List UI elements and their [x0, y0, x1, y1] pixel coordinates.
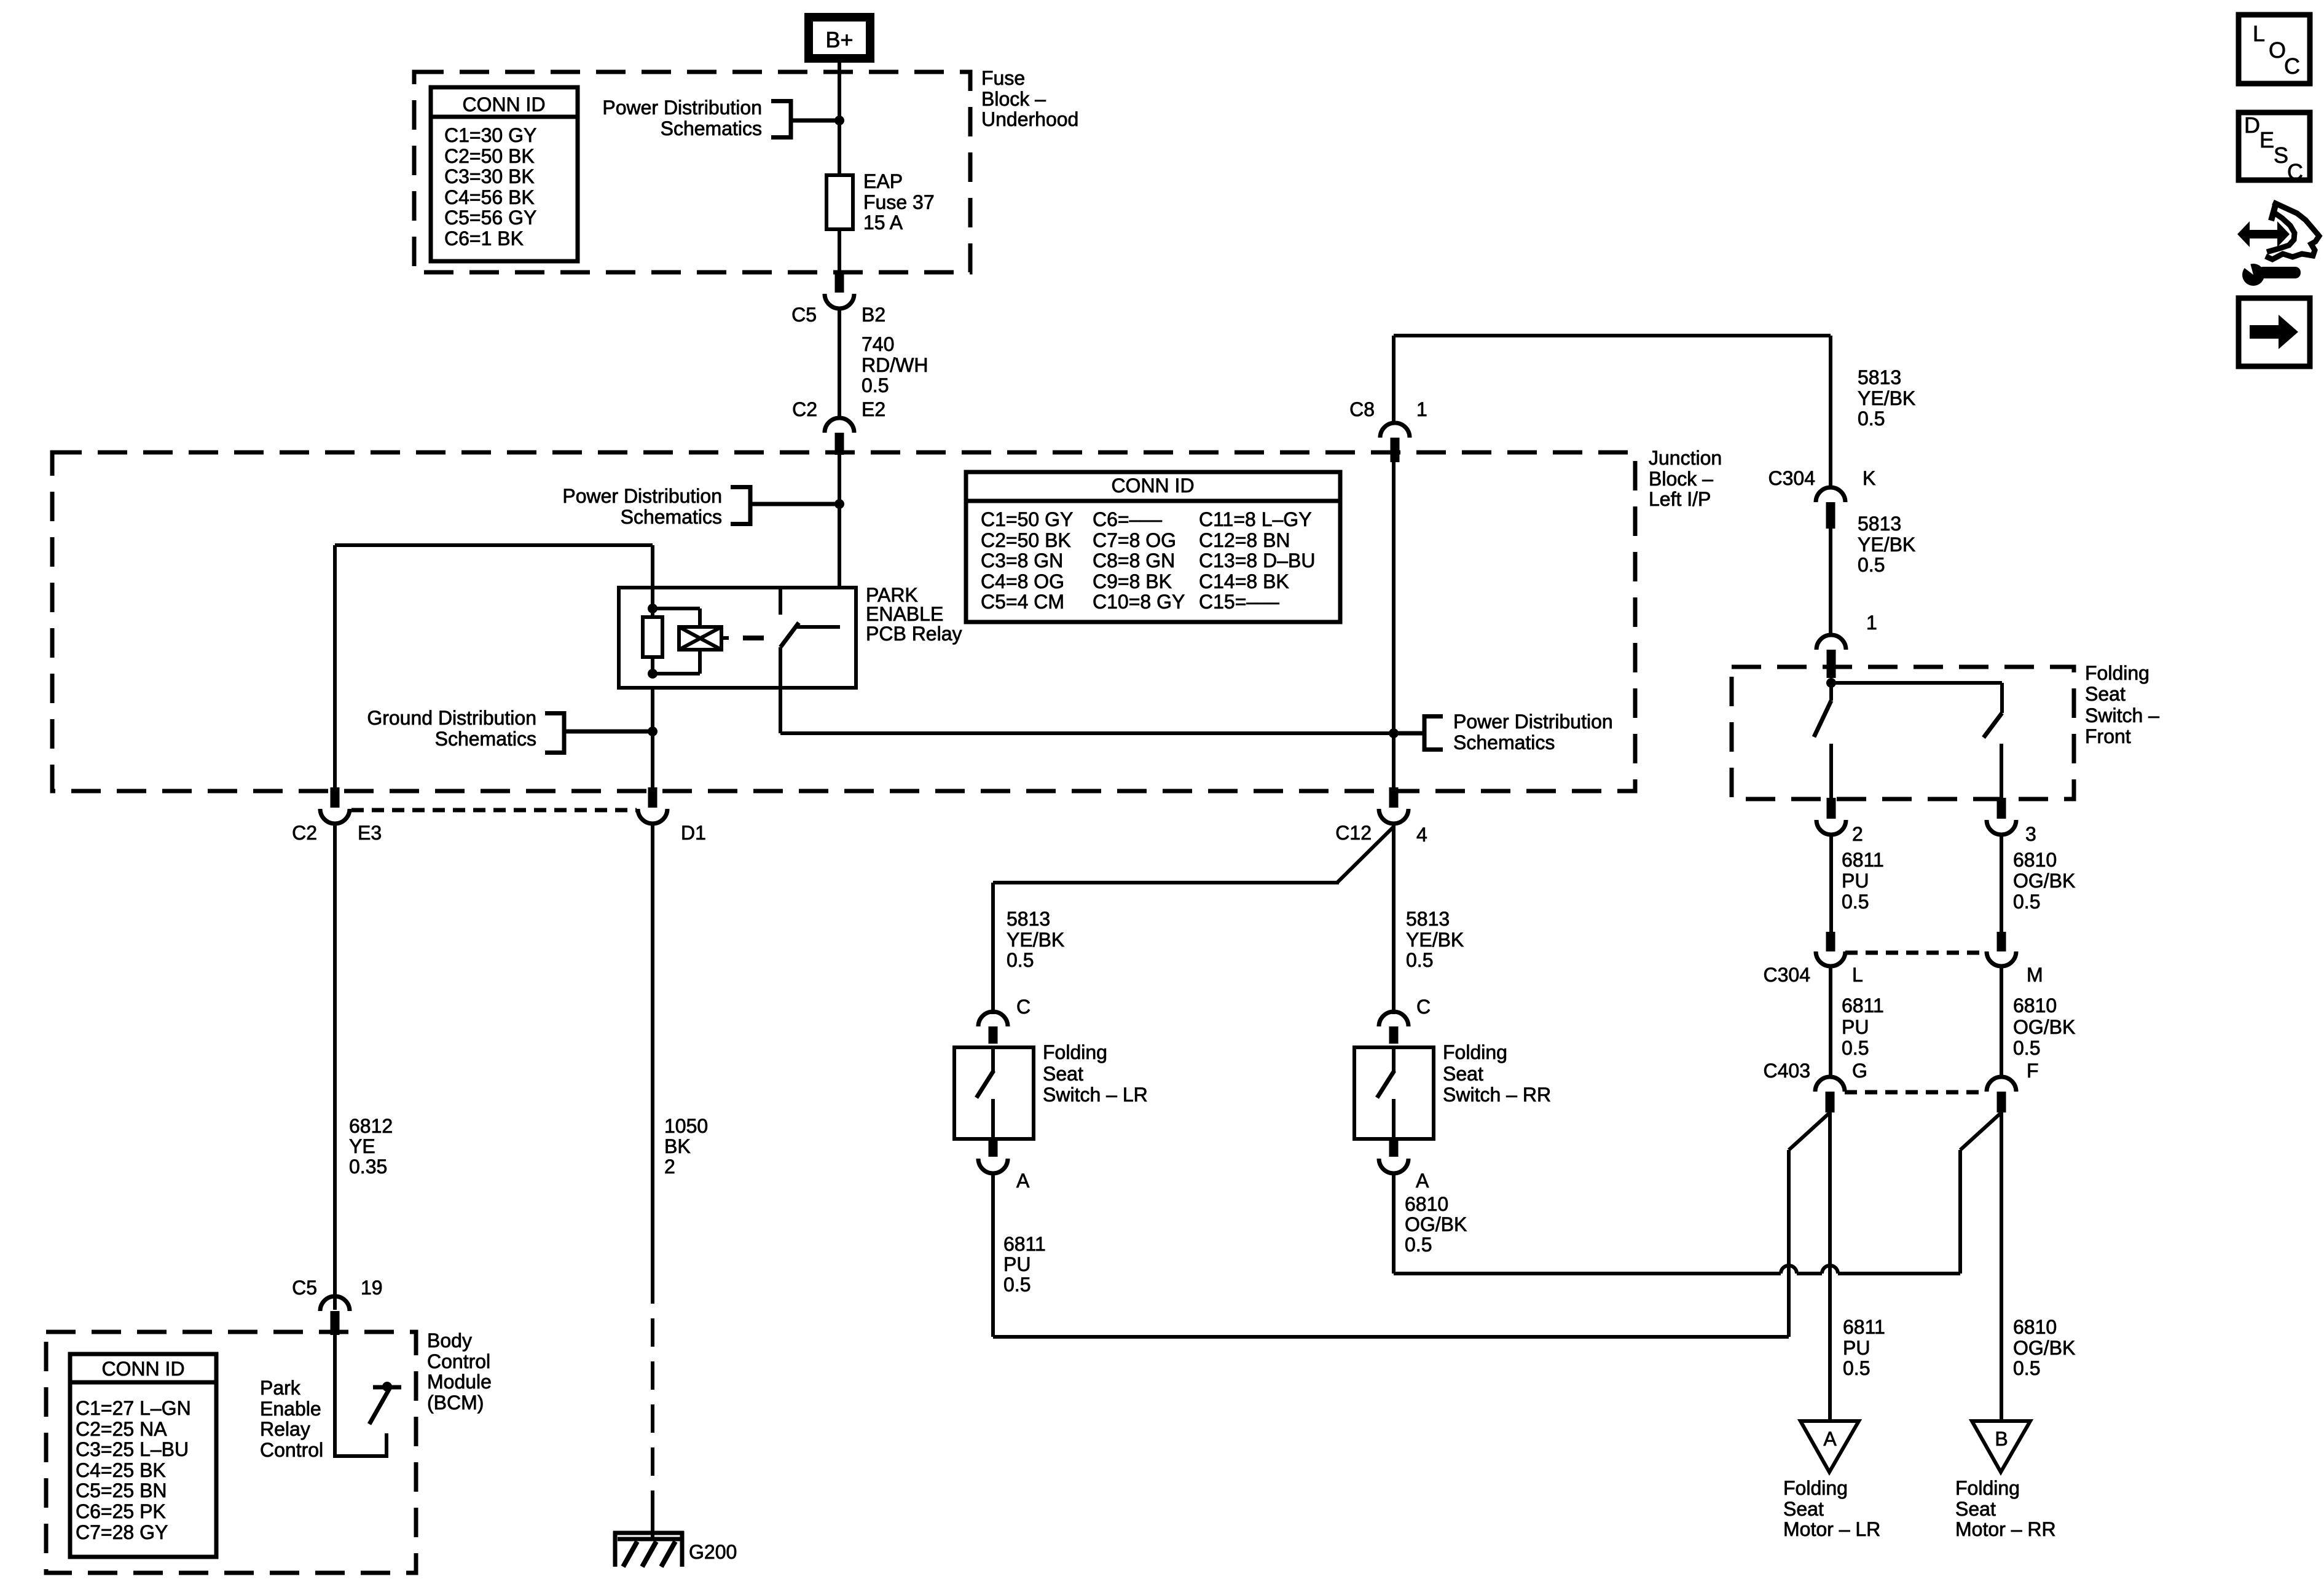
svg-text:0.35: 0.35 — [349, 1156, 387, 1178]
svg-text:Folding: Folding — [2085, 662, 2149, 684]
svg-text:0.5: 0.5 — [1858, 408, 1885, 430]
svg-text:5813: 5813 — [1858, 513, 1901, 535]
svg-text:ENABLE: ENABLE — [866, 603, 943, 625]
svg-text:Schematics: Schematics — [661, 117, 762, 140]
svg-text:C2=50 BK: C2=50 BK — [444, 145, 535, 167]
svg-text:Underhood: Underhood — [981, 108, 1078, 130]
svg-text:L: L — [2253, 21, 2265, 46]
svg-text:Motor – RR: Motor – RR — [1955, 1518, 2056, 1540]
svg-text:C2=50 BK: C2=50 BK — [981, 529, 1071, 551]
svg-text:Body: Body — [427, 1329, 472, 1352]
svg-text:6811: 6811 — [1842, 994, 1884, 1017]
svg-text:0.5: 0.5 — [1406, 949, 1433, 971]
svg-text:C: C — [1016, 996, 1030, 1018]
svg-text:Folding: Folding — [1783, 1477, 1848, 1499]
svg-text:C304: C304 — [1769, 467, 1816, 489]
svg-text:G: G — [1852, 1060, 1867, 1082]
svg-text:C2: C2 — [292, 822, 317, 844]
svg-text:3: 3 — [2025, 823, 2036, 845]
svg-text:Motor – LR: Motor – LR — [1783, 1518, 1880, 1540]
svg-text:PCB Relay: PCB Relay — [866, 623, 962, 645]
svg-text:A: A — [1016, 1170, 1030, 1192]
svg-text:6810: 6810 — [2013, 849, 2057, 871]
svg-text:OG/BK: OG/BK — [2013, 1016, 2075, 1038]
svg-text:C: C — [1416, 996, 1431, 1018]
svg-text:C8: C8 — [1349, 398, 1375, 420]
svg-text:Power Distribution: Power Distribution — [1453, 711, 1613, 733]
svg-text:C403: C403 — [1764, 1060, 1811, 1082]
svg-text:C12=8 BN: C12=8 BN — [1199, 529, 1290, 551]
svg-text:C15=–––: C15=––– — [1199, 591, 1279, 613]
svg-text:C4=25 BK: C4=25 BK — [76, 1459, 166, 1481]
svg-text:C13=8 D–BU: C13=8 D–BU — [1199, 549, 1315, 572]
svg-text:RD/WH: RD/WH — [862, 354, 928, 376]
svg-text:Seat: Seat — [1443, 1063, 1483, 1085]
svg-text:C1=50 GY: C1=50 GY — [981, 508, 1073, 530]
svg-text:EAP: EAP — [863, 170, 903, 192]
svg-text:6810: 6810 — [2013, 1316, 2057, 1338]
svg-text:Control: Control — [427, 1350, 490, 1372]
svg-text:B+: B+ — [825, 27, 853, 52]
svg-text:C10=8 GY: C10=8 GY — [1093, 591, 1185, 613]
svg-text:C3=8 GN: C3=8 GN — [981, 549, 1063, 572]
svg-text:Park: Park — [260, 1377, 301, 1399]
svg-text:E2: E2 — [862, 398, 885, 420]
svg-text:Schematics: Schematics — [621, 506, 722, 528]
svg-text:YE/BK: YE/BK — [1858, 387, 1915, 409]
svg-text:1: 1 — [1416, 398, 1427, 420]
svg-text:6812: 6812 — [349, 1115, 393, 1137]
svg-text:D1: D1 — [681, 822, 706, 844]
svg-text:Module: Module — [427, 1371, 492, 1393]
svg-text:Junction: Junction — [1649, 447, 1722, 469]
svg-text:0.5: 0.5 — [2013, 891, 2040, 913]
svg-text:YE/BK: YE/BK — [1007, 929, 1064, 951]
svg-text:C5=4 CM: C5=4 CM — [981, 591, 1064, 613]
svg-text:YE: YE — [349, 1135, 375, 1157]
svg-text:G200: G200 — [689, 1541, 737, 1563]
svg-text:B: B — [1995, 1428, 2008, 1450]
svg-text:Fuse 37: Fuse 37 — [863, 191, 935, 213]
svg-text:Schematics: Schematics — [435, 728, 536, 750]
svg-text:6811: 6811 — [1003, 1233, 1046, 1255]
svg-text:C2=25 NA: C2=25 NA — [76, 1418, 167, 1440]
svg-text:Fuse: Fuse — [981, 67, 1025, 89]
svg-text:B2: B2 — [862, 304, 885, 326]
svg-text:C5=25 BN: C5=25 BN — [76, 1479, 167, 1502]
svg-text:0.5: 0.5 — [1842, 891, 1869, 913]
svg-text:C7=8 OG: C7=8 OG — [1093, 529, 1176, 551]
svg-text:0.5: 0.5 — [1858, 554, 1885, 576]
svg-text:OG/BK: OG/BK — [2013, 870, 2075, 892]
svg-text:Left I/P: Left I/P — [1649, 488, 1711, 510]
svg-text:Power Distribution: Power Distribution — [562, 485, 722, 507]
svg-text:K: K — [1863, 467, 1875, 489]
svg-text:CONN ID: CONN ID — [462, 93, 545, 116]
svg-text:0.5: 0.5 — [1003, 1274, 1030, 1296]
svg-text:C1=27 L–GN: C1=27 L–GN — [76, 1397, 191, 1419]
svg-text:4: 4 — [1416, 824, 1427, 846]
svg-text:Schematics: Schematics — [1453, 731, 1555, 754]
svg-text:0.5: 0.5 — [2013, 1357, 2040, 1379]
svg-text:C6=25 PK: C6=25 PK — [76, 1500, 166, 1522]
svg-text:S: S — [2274, 143, 2288, 168]
svg-text:F: F — [2027, 1060, 2039, 1082]
svg-text:C2: C2 — [792, 398, 817, 420]
svg-text:Seat: Seat — [1955, 1498, 1996, 1520]
svg-text:CONN ID: CONN ID — [101, 1358, 184, 1380]
svg-text:Seat: Seat — [1783, 1498, 1824, 1520]
svg-text:Control: Control — [260, 1439, 323, 1461]
svg-text:C8=8 GN: C8=8 GN — [1093, 549, 1175, 572]
svg-text:YE/BK: YE/BK — [1406, 929, 1464, 951]
svg-text:Enable: Enable — [260, 1398, 321, 1420]
svg-text:6810: 6810 — [2013, 994, 2057, 1017]
svg-text:CONN ID: CONN ID — [1111, 474, 1194, 497]
svg-text:C7=28 GY: C7=28 GY — [76, 1521, 168, 1543]
svg-text:C5: C5 — [292, 1277, 317, 1299]
svg-text:15 A: 15 A — [863, 211, 903, 234]
svg-text:740: 740 — [862, 333, 894, 355]
svg-text:0.5: 0.5 — [2013, 1037, 2040, 1059]
svg-text:O: O — [2269, 37, 2286, 63]
svg-text:A: A — [1823, 1428, 1837, 1450]
svg-text:0.5: 0.5 — [1843, 1357, 1870, 1379]
svg-text:Switch – LR: Switch – LR — [1043, 1084, 1148, 1106]
svg-text:0.5: 0.5 — [1405, 1234, 1432, 1256]
svg-text:C5: C5 — [791, 304, 817, 326]
svg-text:Block –: Block – — [1649, 468, 1713, 490]
svg-text:PU: PU — [1842, 870, 1869, 892]
svg-text:C5=56 GY: C5=56 GY — [444, 207, 536, 229]
svg-text:1050: 1050 — [664, 1115, 708, 1137]
svg-text:6811: 6811 — [1842, 849, 1884, 871]
svg-text:2: 2 — [1852, 823, 1863, 845]
svg-text:C6=–––: C6=––– — [1093, 508, 1162, 530]
svg-text:C3=25 L–BU: C3=25 L–BU — [76, 1438, 189, 1460]
svg-text:Power Distribution: Power Distribution — [602, 96, 762, 119]
svg-text:Front: Front — [2085, 725, 2131, 747]
svg-text:6810: 6810 — [1405, 1193, 1448, 1215]
svg-text:Switch – RR: Switch – RR — [1443, 1084, 1551, 1106]
svg-text:6811: 6811 — [1843, 1316, 1885, 1338]
svg-text:Ground Distribution: Ground Distribution — [367, 707, 536, 729]
svg-text:C: C — [2284, 53, 2300, 79]
svg-text:C11=8 L–GY: C11=8 L–GY — [1199, 508, 1312, 530]
svg-text:M: M — [2027, 964, 2043, 986]
svg-text:C9=8 BK: C9=8 BK — [1093, 570, 1172, 593]
svg-text:5813: 5813 — [1007, 908, 1050, 930]
svg-text:C6=1 BK: C6=1 BK — [444, 227, 524, 250]
svg-text:C3=30 BK: C3=30 BK — [444, 165, 535, 187]
svg-text:C4=8 OG: C4=8 OG — [981, 570, 1064, 593]
svg-text:Seat: Seat — [1043, 1063, 1083, 1085]
svg-text:Folding: Folding — [1443, 1041, 1507, 1063]
svg-text:E: E — [2259, 127, 2274, 152]
svg-text:OG/BK: OG/BK — [2013, 1337, 2075, 1359]
svg-text:Folding: Folding — [1043, 1041, 1107, 1063]
svg-text:19: 19 — [361, 1277, 383, 1299]
svg-text:0.5: 0.5 — [1007, 949, 1034, 971]
svg-text:C: C — [2287, 159, 2303, 184]
svg-text:5813: 5813 — [1406, 908, 1450, 930]
svg-text:OG/BK: OG/BK — [1405, 1213, 1467, 1235]
svg-text:Folding: Folding — [1955, 1477, 2020, 1499]
svg-text:L: L — [1852, 964, 1863, 986]
svg-text:YE/BK: YE/BK — [1858, 534, 1915, 556]
svg-text:A: A — [1416, 1170, 1429, 1192]
svg-text:0.5: 0.5 — [862, 374, 889, 396]
svg-text:(BCM): (BCM) — [427, 1392, 484, 1414]
svg-text:C4=56 BK: C4=56 BK — [444, 186, 535, 208]
svg-text:0.5: 0.5 — [1842, 1037, 1869, 1059]
svg-text:Relay: Relay — [260, 1418, 310, 1440]
svg-text:C14=8 BK: C14=8 BK — [1199, 570, 1289, 593]
svg-text:1: 1 — [1866, 612, 1877, 634]
svg-text:PU: PU — [1003, 1253, 1030, 1275]
svg-text:D: D — [2244, 112, 2260, 138]
svg-text:PU: PU — [1842, 1016, 1869, 1038]
svg-text:BK: BK — [664, 1135, 691, 1157]
svg-text:PU: PU — [1843, 1337, 1870, 1359]
svg-text:C1=30 GY: C1=30 GY — [444, 124, 536, 146]
svg-text:C304: C304 — [1764, 964, 1811, 986]
svg-text:2: 2 — [664, 1156, 675, 1178]
svg-text:Switch –: Switch – — [2085, 704, 2159, 726]
svg-text:5813: 5813 — [1858, 366, 1901, 388]
svg-text:C12: C12 — [1335, 822, 1372, 844]
svg-text:E3: E3 — [358, 822, 382, 844]
svg-text:Seat: Seat — [2085, 683, 2126, 705]
svg-text:Block –: Block – — [981, 88, 1046, 110]
